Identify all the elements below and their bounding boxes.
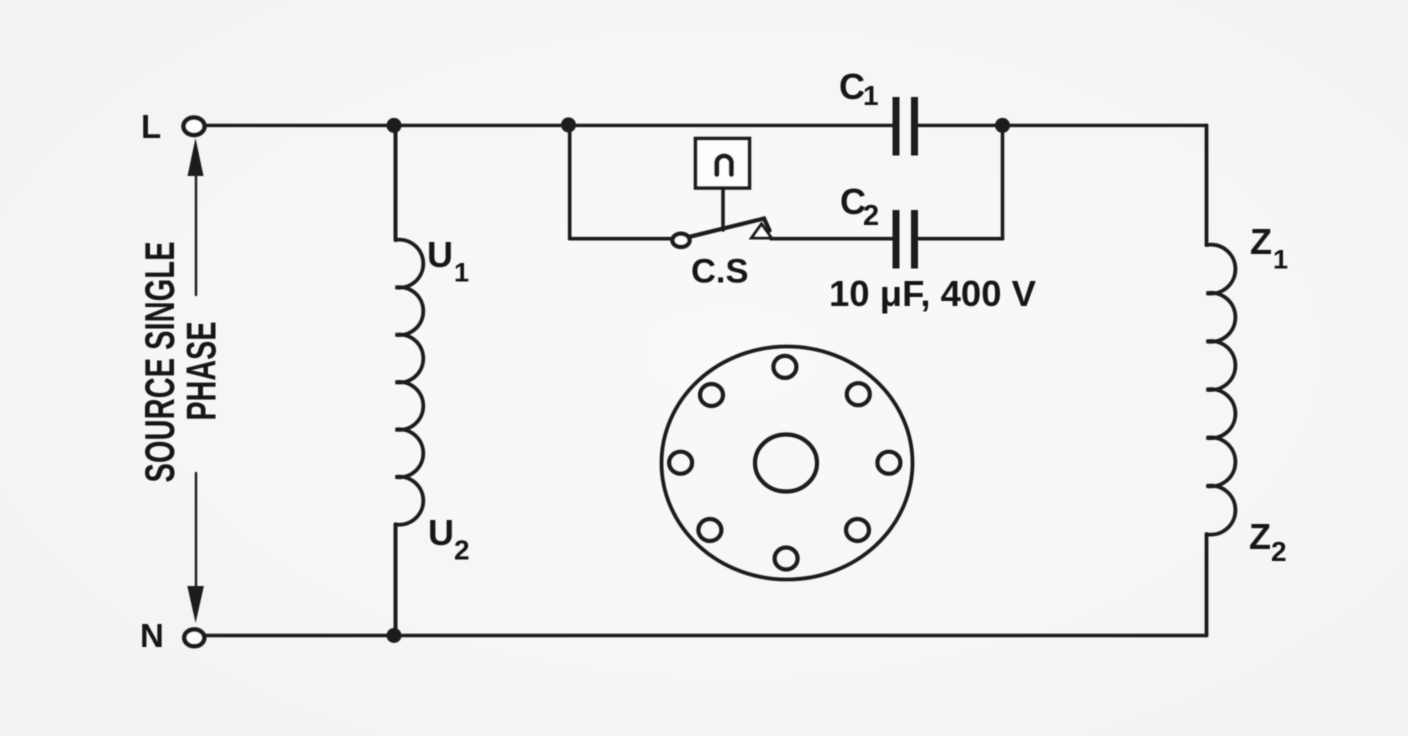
inductor U1-U2 main winding xyxy=(396,240,424,525)
wire right side down xyxy=(1205,125,1209,245)
svg-text:C.S: C.S xyxy=(691,253,749,291)
motor bolt hole top-right xyxy=(847,383,870,405)
centrifugal switch box xyxy=(696,139,750,189)
source arrow up xyxy=(195,174,197,295)
svg-text:Z1: Z1 xyxy=(1250,221,1288,275)
motor bolt hole bottom-left xyxy=(698,519,721,541)
capacitor C2 plates xyxy=(893,210,900,269)
wire right side lower xyxy=(1205,534,1209,635)
wire switch branch vertical xyxy=(568,125,572,238)
motor shaft hole xyxy=(755,435,817,492)
svg-text:N: N xyxy=(140,617,164,654)
wire switch branch horizontal to pivot xyxy=(570,237,673,241)
svg-text:C1: C1 xyxy=(839,66,879,111)
wire C2 to riser xyxy=(918,237,1003,241)
motor bolt hole top xyxy=(773,356,796,378)
motor bolt hole right xyxy=(877,452,900,474)
motor bolt hole bottom xyxy=(775,548,798,570)
wire left branch lower xyxy=(394,524,398,635)
svg-text:PHASE: PHASE xyxy=(178,322,225,421)
svg-text:C2: C2 xyxy=(840,181,879,232)
capacitor C1 plates xyxy=(893,97,900,156)
wire left branch upper xyxy=(394,125,398,240)
wire top C1 to right corner xyxy=(918,124,1207,127)
terminal L xyxy=(184,118,205,135)
svg-text:Z2: Z2 xyxy=(1249,516,1287,567)
switch arm xyxy=(690,219,770,237)
inductor Z1-Z2 xyxy=(1207,245,1236,535)
motor body xyxy=(662,347,913,580)
cap symbol in box xyxy=(717,156,732,175)
terminal N xyxy=(184,629,204,646)
switch fixed contact triangle xyxy=(752,224,772,238)
wire triangle to C2 xyxy=(771,237,893,241)
junction dot top-left branch xyxy=(387,118,402,133)
junction dot C riser xyxy=(995,118,1010,133)
wire top L to C1 xyxy=(206,124,893,127)
motor bolt hole left xyxy=(669,452,692,474)
svg-text:U1: U1 xyxy=(427,234,469,288)
svg-text:SOURCE SINGLE: SOURCE SINGLE xyxy=(136,242,183,483)
junction dot switch branch xyxy=(561,117,576,132)
motor bolt hole top-left xyxy=(700,384,723,406)
wire bottom xyxy=(205,634,1207,637)
wire riser to top xyxy=(1001,125,1005,238)
svg-text:L: L xyxy=(141,108,161,145)
svg-text:10 μF, 400 V: 10 μF, 400 V xyxy=(829,273,1037,314)
source arrow down xyxy=(195,473,197,589)
svg-text:U2: U2 xyxy=(428,512,470,566)
junction dot bottom branch xyxy=(387,628,402,643)
motor bolt hole bottom-right xyxy=(846,519,869,541)
wire box to switch arm xyxy=(721,188,725,230)
switch pivot circle xyxy=(672,234,689,247)
